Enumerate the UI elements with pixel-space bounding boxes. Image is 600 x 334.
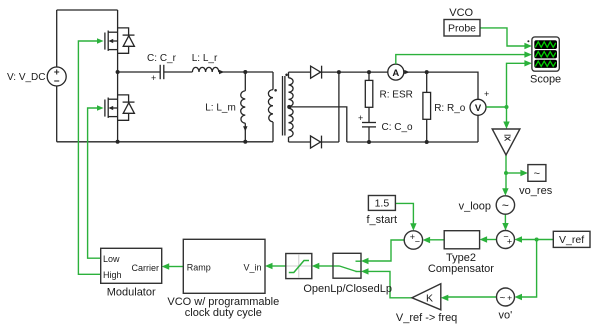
arrow into switch upper xyxy=(361,258,369,264)
arrow into sum2 top xyxy=(410,223,416,231)
node voltmeter green junction xyxy=(505,105,509,109)
wire compensator to sum2 xyxy=(428,239,444,241)
wire gain K to switch lower input xyxy=(367,271,412,297)
wire ammeter to scope xyxy=(396,55,526,65)
transistor FET2 (bottom MOSFET) xyxy=(105,72,118,142)
transformer secondary winding bottom xyxy=(289,108,294,142)
arrow into FET1 gate xyxy=(97,38,104,43)
arrow into scope input 3 xyxy=(524,60,532,66)
wire secondary bottom to diode xyxy=(289,141,311,143)
wire output top rail left xyxy=(339,71,388,73)
block Type2 Compensator xyxy=(444,231,479,249)
diode D1 (antiparallel, top) xyxy=(118,28,135,53)
block saturation xyxy=(286,254,312,279)
svg-text:v_loop: v_loop xyxy=(459,200,491,212)
wire bottom rail primary side xyxy=(57,141,273,143)
block Modulator xyxy=(101,248,162,283)
arrow into mean block xyxy=(503,122,509,130)
block switch OpenLp/ClosedLp xyxy=(333,253,361,278)
node V_ref branch junction xyxy=(535,238,539,242)
svg-text:High: High xyxy=(103,270,122,280)
node center tap xyxy=(287,105,291,109)
wire sum2 to switch upper input xyxy=(367,240,404,261)
arrow into vo_res xyxy=(520,170,528,176)
ammeter A1 xyxy=(388,64,404,80)
svg-text:OpenLp/ClosedLp: OpenLp/ClosedLp xyxy=(303,283,392,295)
arrow into vo' right xyxy=(515,294,523,300)
svg-text:Compensator: Compensator xyxy=(428,263,494,275)
svg-text:L: L_r: L: L_r xyxy=(192,53,218,64)
wire left rail upper xyxy=(56,10,58,67)
arrow into switch lower xyxy=(361,268,369,274)
svg-text:Probe: Probe xyxy=(448,22,476,34)
svg-text:Scope: Scope xyxy=(530,73,561,85)
block vo_res xyxy=(528,165,546,182)
svg-text:vo': vo' xyxy=(499,309,513,321)
wire modulator Low to FET2 gate xyxy=(88,108,101,258)
diode D2 (antiparallel, bottom) xyxy=(118,95,135,120)
svg-text:R: R_o: R: R_o xyxy=(434,103,466,114)
node ESR top xyxy=(367,70,371,74)
wire output top rail right xyxy=(404,72,478,99)
arrow into compensator xyxy=(480,236,488,242)
arrow into sum1 top xyxy=(502,223,508,231)
node half-bridge midpoint xyxy=(116,70,120,74)
inductor L: L_r xyxy=(192,67,218,72)
svg-text:C: C_o: C: C_o xyxy=(382,122,414,133)
node R_o top xyxy=(425,70,429,74)
arrow into sum2 right xyxy=(423,237,431,243)
wire junction down to mean block xyxy=(506,107,508,124)
scope block xyxy=(527,37,559,71)
svg-text:f_start: f_start xyxy=(367,214,398,226)
svg-text:+: + xyxy=(358,113,363,123)
green arrowheads xyxy=(97,38,532,301)
wire secondary top to diode xyxy=(289,71,311,73)
arrow into FET2 gate xyxy=(97,105,104,110)
summer sum1 xyxy=(497,231,515,249)
wire left rail lower xyxy=(56,86,58,142)
wire modulator High to FET1 gate xyxy=(78,41,100,274)
wire switch to saturation xyxy=(318,265,334,267)
transformer core xyxy=(283,76,285,136)
wire mean output to junction xyxy=(505,155,507,173)
node vo' (circle ~+) xyxy=(497,288,515,306)
arrow into sum1 right xyxy=(515,236,523,242)
wire saturation to VCO xyxy=(271,265,286,267)
transformer primary winding xyxy=(268,72,273,142)
capacitor C: C_o xyxy=(362,123,376,143)
inductor L: L_m xyxy=(241,72,246,142)
diode D3 (top rectifier) xyxy=(311,66,339,79)
wire output bottom rail xyxy=(347,141,478,143)
node L_m top xyxy=(243,70,247,74)
svg-text:+: + xyxy=(484,89,489,99)
arrow into scope input 2 xyxy=(524,51,532,57)
GREEN SIGNAL WIRES xyxy=(78,28,553,298)
svg-text:vo_res: vo_res xyxy=(519,185,553,197)
wire C_r to L_r xyxy=(164,71,193,73)
svg-text:A: A xyxy=(392,68,399,79)
wire rectifier join vertical xyxy=(338,72,340,142)
wire top rail xyxy=(57,9,118,11)
arrow into scope input 1 xyxy=(524,43,532,49)
wire probe to scope xyxy=(480,28,525,46)
svg-text:V: V_DC: V: V_DC xyxy=(7,72,46,83)
wire V_ref to sum1 xyxy=(521,239,554,241)
svg-text:clock duty cycle: clock duty cycle xyxy=(185,307,262,319)
transformer secondary polarity dot xyxy=(285,74,288,77)
svg-text:−: − xyxy=(415,237,420,247)
block 1.5 constant xyxy=(368,196,395,211)
block V_ref xyxy=(553,231,590,247)
op-amp mean block (triangle with xbar) xyxy=(492,129,520,155)
resistor R: R_o xyxy=(423,72,431,142)
wire v_loop to sum1 xyxy=(504,214,506,225)
transistor FET1 (top MOSFET) xyxy=(105,10,118,72)
voltage source V: V_DC xyxy=(47,67,66,86)
diode D4 (bottom rectifier) xyxy=(311,136,339,149)
svg-text:1.5: 1.5 xyxy=(375,198,390,210)
wire junction down to v_loop xyxy=(505,173,507,191)
arrow into VCO V_in xyxy=(265,263,273,269)
block VCO w/ programmable clock duty cycle xyxy=(183,239,265,293)
svg-text:L: L_m: L: L_m xyxy=(205,102,236,113)
probe block xyxy=(444,20,480,37)
wire voltmeter to junction xyxy=(486,106,506,108)
wire center tap xyxy=(289,107,347,142)
svg-text:Modulator: Modulator xyxy=(107,287,156,299)
arrow into saturation xyxy=(312,263,320,269)
svg-text:+: + xyxy=(507,292,512,302)
svg-text:Low: Low xyxy=(103,254,120,264)
svg-text:~: ~ xyxy=(502,199,509,213)
node ESR bottom xyxy=(367,140,371,144)
wire f_start to sum2 xyxy=(395,203,413,224)
wire junction up to scope xyxy=(507,63,526,107)
svg-text:~: ~ xyxy=(499,293,505,304)
svg-text:V_ref -> freq: V_ref -> freq xyxy=(396,312,457,324)
arrow into modulator Carrier xyxy=(162,263,170,269)
wire junction to vo_res xyxy=(506,172,522,174)
transformer secondary winding top xyxy=(289,72,294,106)
node L_m bottom xyxy=(243,140,247,144)
wire vo' to gain K xyxy=(447,296,497,298)
svg-text:V: V xyxy=(475,103,482,114)
svg-text:+: + xyxy=(151,73,156,83)
node mean output junction xyxy=(504,171,508,175)
gain K (V_ref -> freq) xyxy=(412,284,441,310)
capacitor C: C_r xyxy=(160,65,164,79)
svg-text:VCO: VCO xyxy=(449,7,473,19)
svg-text:V_ref: V_ref xyxy=(559,234,584,246)
arrow into gain K xyxy=(441,295,449,301)
svg-text:~: ~ xyxy=(534,168,540,180)
svg-text:Carrier: Carrier xyxy=(131,263,159,273)
wire sum1 to compensator xyxy=(486,239,497,241)
svg-text:V_in: V_in xyxy=(243,262,261,272)
node rectifier output xyxy=(337,70,341,74)
wire V_ref junction down to vo' xyxy=(521,240,537,298)
svg-text:K: K xyxy=(426,293,433,305)
node R_o bottom xyxy=(425,140,429,144)
node bottom rail at FET2 source xyxy=(116,140,120,144)
node v_loop (circle ~) xyxy=(496,196,514,214)
wire L_r to node xyxy=(219,71,273,73)
svg-text:Ramp: Ramp xyxy=(187,262,211,272)
summer sum2 xyxy=(404,231,422,249)
svg-text:+: + xyxy=(507,237,512,247)
transformer primary polarity dot xyxy=(274,89,277,92)
svg-text:C: C_r: C: C_r xyxy=(147,53,177,64)
green junction dots xyxy=(504,105,539,242)
voltmeter V1 xyxy=(470,99,486,142)
wire VCO ramp to modulator xyxy=(168,266,184,268)
resistor R: ESR xyxy=(365,72,373,122)
arrow into v_loop xyxy=(502,188,508,196)
wire midpoint to C_r xyxy=(118,71,160,73)
svg-text:R: ESR: R: ESR xyxy=(380,90,413,101)
